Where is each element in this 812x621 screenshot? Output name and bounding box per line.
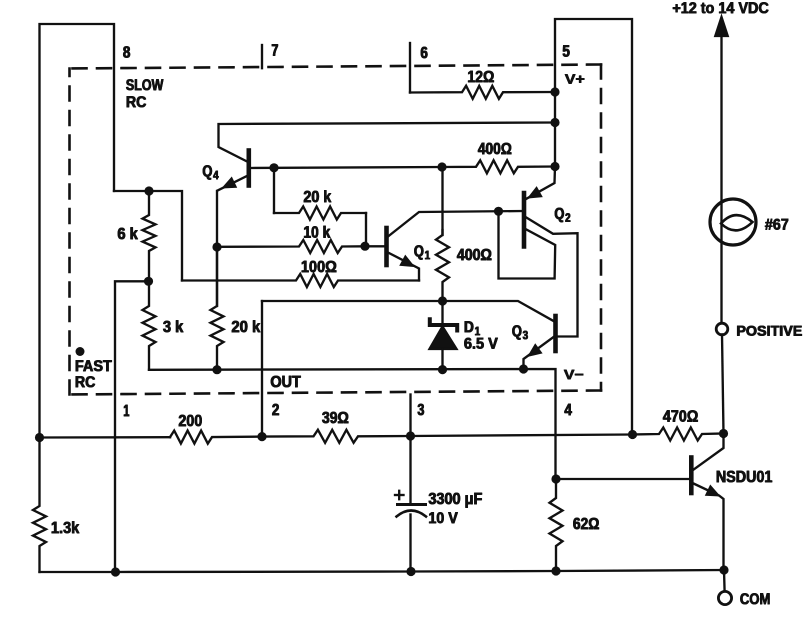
- resistor 62 ohm: [550, 479, 563, 571]
- junction dot rail pin3: [406, 431, 415, 440]
- svg-text:2: 2: [566, 213, 572, 225]
- transistor Q2 collector 1 (to Q3 collector): [526, 217, 578, 337]
- wire bottom rail (ground/COM rail): [40, 570, 725, 572]
- label COM: [740, 591, 771, 609]
- junction dot Q2 base: [494, 207, 503, 216]
- value label 3300 uF: [428, 489, 483, 509]
- wire OUT / V- row: [149, 369, 556, 479]
- junction dot D1 bottom: [438, 365, 447, 374]
- svg-text:3: 3: [418, 401, 425, 420]
- capacitor C1 plus sign: [395, 491, 404, 499]
- svg-text:5: 5: [563, 42, 571, 61]
- value label 20 k: [303, 187, 332, 207]
- resistor 6k: [143, 191, 156, 281]
- label POSITIVE: [736, 323, 803, 341]
- svg-text:V−: V−: [564, 367, 584, 383]
- resistor 10k (Q4 emitter node to Q1 base): [217, 240, 365, 253]
- svg-text:D: D: [464, 320, 474, 337]
- junction dot rail lamp: [719, 429, 728, 438]
- transistor Q4 bar: [247, 151, 252, 186]
- svg-text:Q: Q: [414, 244, 424, 261]
- wire 400ohm-vertical top: [441, 167, 443, 235]
- value label 200: [178, 411, 203, 431]
- transistor Q3 emitter with arrow: [524, 337, 554, 369]
- svg-text:V+: V+: [565, 71, 585, 87]
- svg-text:Q: Q: [512, 324, 522, 341]
- junction dot D1 top: [438, 296, 447, 305]
- pin 6 stub: [409, 43, 411, 93]
- junction dot pin4/base node: [551, 474, 560, 483]
- label SLOW RC: [126, 77, 165, 112]
- wire middle rail: [40, 428, 724, 444]
- value label 1.3k: [51, 518, 81, 538]
- junction dot V+ node: [550, 162, 559, 171]
- junction dot Q4 base/20k: [269, 163, 278, 172]
- label NSDU01: [716, 467, 773, 487]
- svg-text:1: 1: [425, 251, 431, 263]
- junction dot Q1 base: [360, 242, 369, 251]
- transistor Q3 bar: [553, 316, 558, 351]
- svg-text:3: 3: [523, 331, 529, 343]
- svg-text:4: 4: [214, 171, 220, 183]
- svg-text:6.5 V: 6.5 V: [464, 336, 498, 353]
- value label 12 ohm: [467, 67, 495, 87]
- junction dot rail pin2: [257, 432, 266, 441]
- pin 4 number label: [564, 400, 573, 420]
- pin 2 number label: [272, 400, 280, 420]
- diode D1 zener cathode bar: [430, 319, 457, 330]
- value label 10 k: [303, 223, 331, 243]
- diode D1 triangle: [430, 327, 457, 350]
- transistor Q4 emitter with arrow: [218, 176, 248, 191]
- transistor Q2 emitter with arrow (to V+): [526, 167, 555, 200]
- svg-text:Q: Q: [203, 164, 213, 181]
- junction dot rail left: [35, 433, 44, 442]
- svg-text:62Ω: 62Ω: [573, 515, 600, 534]
- svg-text:Q: Q: [555, 206, 565, 223]
- svg-text:RC: RC: [126, 95, 147, 112]
- resistor 12 ohm (pin6 to V+): [410, 86, 555, 99]
- junction dot rail right-box: [628, 430, 637, 439]
- pin 8 lead (SLOW RC): [114, 191, 182, 281]
- value label 6.5 V: [464, 336, 499, 354]
- label Q2: [554, 206, 571, 226]
- svg-text:FAST: FAST: [75, 359, 112, 376]
- value label 470 ohm: [663, 407, 699, 427]
- pin 7 number label: [271, 41, 279, 61]
- pin 1 number label: [123, 401, 130, 421]
- junction dot 6k bottom: [144, 277, 153, 286]
- svg-text:6 k: 6 k: [118, 225, 139, 244]
- svg-text:470Ω: 470Ω: [663, 407, 699, 426]
- svg-text:SLOW: SLOW: [126, 78, 164, 95]
- transistor Q2 bar: [522, 193, 527, 247]
- label Q4: [202, 163, 220, 183]
- resistor 400 ohm (base rail to V+): [442, 160, 555, 173]
- value label 3 k: [163, 317, 185, 337]
- svg-text:3300 μF: 3300 μF: [429, 490, 483, 509]
- svg-text:10 V: 10 V: [429, 511, 459, 528]
- junction dot pin1 bottom: [111, 567, 120, 576]
- value label 10 V: [428, 510, 459, 528]
- junction dot bottom rail right: [719, 565, 728, 574]
- wire COM drop: [723, 570, 726, 592]
- pin 3 stub: [409, 395, 411, 437]
- resistor 20k vertical: [211, 247, 224, 370]
- svg-text:400Ω: 400Ω: [457, 246, 492, 265]
- svg-text:+12 to 14 VDC: +12 to 14 VDC: [673, 1, 770, 18]
- label V+: [565, 71, 586, 88]
- lamp #67 filament loop: [721, 215, 753, 230]
- resistor R 1.3k on left rail: [33, 438, 46, 573]
- terminal POSITIVE circle: [716, 323, 728, 335]
- pin 6 number label: [420, 43, 428, 63]
- value label 400 ohm: [478, 139, 513, 159]
- junction dot 62ohm bottom: [551, 566, 560, 575]
- wire POSITIVE to rail: [722, 335, 724, 434]
- svg-text:200: 200: [179, 412, 203, 431]
- resistor 100 ohm (pin8 node to Q1 emitter): [182, 274, 419, 287]
- pin 3 number label: [417, 400, 425, 420]
- wire left outer loop (top box from supply left rail): [40, 24, 115, 438]
- resistor 3k: [143, 281, 156, 370]
- svg-text:1.3k: 1.3k: [51, 519, 80, 538]
- junction dot cap bottom: [406, 567, 415, 576]
- svg-text:8: 8: [123, 43, 131, 62]
- IC package outline (dashed box): [70, 65, 602, 395]
- svg-text:POSITIVE: POSITIVE: [737, 323, 803, 340]
- svg-text:39Ω: 39Ω: [322, 409, 349, 428]
- label +12 to 14 VDC: [672, 0, 769, 18]
- value label 62 ohm: [573, 514, 600, 534]
- capacitor C1 wire top: [409, 436, 411, 504]
- value label 400 ohm vertical: [457, 245, 493, 265]
- svg-text:3 k: 3 k: [163, 318, 184, 337]
- label D1: [464, 319, 482, 339]
- junction dot 20k bottom: [212, 365, 221, 374]
- resistor 20k horizontal: [274, 168, 366, 246]
- label V-: [564, 366, 585, 383]
- wire Q4 emitter column: [216, 191, 218, 306]
- label Q3: [512, 323, 529, 343]
- junction dot Q3 emitter: [519, 364, 528, 373]
- pin 1 lead: [115, 281, 149, 572]
- diode D1 wire bottom: [441, 349, 443, 370]
- label FAST RC: [75, 358, 113, 392]
- svg-text:12Ω: 12Ω: [468, 68, 495, 87]
- svg-text:10 k: 10 k: [304, 223, 331, 242]
- svg-text:20 k: 20 k: [304, 188, 332, 207]
- terminal COM circle: [718, 591, 731, 604]
- capacitor C1 wire bottom: [409, 515, 411, 572]
- pin 7 stub (no internal connection): [261, 45, 263, 68]
- capacitor C1 curved plate: [397, 511, 427, 517]
- svg-text:20 k: 20 k: [232, 318, 261, 337]
- diode D1 wire top: [441, 301, 443, 325]
- transistor NSDU01 emitter with arrow: [694, 484, 724, 571]
- transistor Q4 collector (to V+ rail): [219, 123, 556, 162]
- capacitor C1 top plate: [398, 503, 426, 506]
- transistor NSDU01 bar: [689, 458, 694, 494]
- wire pin 2 column: [261, 301, 263, 437]
- svg-text:OUT: OUT: [271, 373, 302, 392]
- junction dot 400ohm-left/vertical: [437, 162, 446, 171]
- label #67: [765, 217, 790, 235]
- svg-text:7: 7: [272, 41, 279, 60]
- pin 5 number label: [562, 42, 570, 62]
- label Q1: [414, 243, 432, 263]
- lamp #67 circle: [710, 199, 756, 245]
- node FAST RC dot: [76, 347, 85, 356]
- transistor Q1 base lead: [365, 245, 385, 247]
- svg-text:1: 1: [124, 402, 130, 421]
- wire pin 5 V+ vertical and top box to right rail: [555, 19, 632, 435]
- wire Q3 base row: [262, 301, 554, 321]
- junction dot pin5/12ohm: [550, 87, 559, 96]
- value label 39 ohm: [322, 408, 350, 428]
- svg-text:RC: RC: [75, 375, 96, 392]
- svg-text:NSDU01: NSDU01: [716, 468, 773, 487]
- supply arrow +12 to 14 VDC: [715, 17, 727, 324]
- value label 6 k: [117, 224, 139, 244]
- transistor Q1 emitter with arrow: [388, 253, 419, 281]
- svg-text:6: 6: [421, 44, 429, 63]
- svg-text:2: 2: [272, 401, 280, 420]
- svg-text:COM: COM: [740, 592, 771, 609]
- junction dot 10k left: [212, 242, 221, 251]
- value label 20 k vertical: [231, 317, 261, 337]
- svg-text:#67: #67: [765, 217, 789, 234]
- pin 8 number label: [123, 43, 131, 63]
- value label 100 ohm: [301, 257, 338, 277]
- junction dot pin5/Q4 collector rail: [550, 118, 559, 127]
- resistor 400 ohm vertical: [436, 230, 449, 301]
- transistor Q1 collector: [388, 211, 523, 237]
- wire Q4 base rail to 400 ohm: [251, 167, 443, 168]
- transistor Q2 collector 2 (looped to base): [499, 211, 556, 278]
- svg-text:100Ω: 100Ω: [301, 258, 337, 277]
- label OUT: [270, 372, 302, 392]
- junction dot 6k top: [144, 186, 153, 195]
- transistor Q1 bar: [384, 228, 389, 265]
- svg-text:400Ω: 400Ω: [478, 140, 512, 159]
- transistor NSDU01 base lead: [556, 478, 690, 480]
- svg-text:4: 4: [565, 401, 573, 420]
- transistor NSDU01 collector: [693, 434, 724, 471]
